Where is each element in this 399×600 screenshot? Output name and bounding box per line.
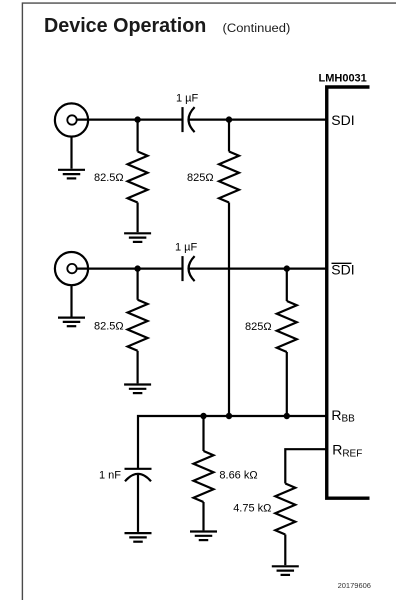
resistor R6 4.75 kohm	[275, 484, 295, 535]
wire R1 to ground	[137, 203, 139, 233]
wire R4 to RBB node	[286, 352, 288, 416]
svg-text:RBB: RBB	[331, 407, 355, 425]
wire R2 to RBB node	[228, 203, 230, 417]
BNC connector J2 outer	[55, 252, 88, 285]
wire R5 to ground	[202, 502, 204, 530]
svg-text:1 nF: 1 nF	[99, 470, 121, 482]
wire node to R2	[228, 120, 230, 152]
junction dot RBB/R2	[226, 413, 232, 419]
wire J1 shield to ground	[70, 137, 72, 169]
wire R3 to ground	[137, 351, 139, 384]
wire R6 to ground	[284, 535, 286, 566]
wire node to R3	[137, 269, 139, 300]
wire RREF pin to R6	[285, 449, 326, 483]
ground R6	[272, 566, 299, 575]
wire RBB rail	[138, 416, 326, 469]
junction dot RBB/R5	[200, 413, 206, 419]
BNC connector J2 inner	[67, 264, 76, 273]
resistor R1 82.5 ohm	[128, 152, 148, 203]
svg-text:(Continued): (Continued)	[223, 21, 291, 35]
wire J2 to C2 (row 2)	[77, 268, 183, 270]
wire C2 to SDI-bar pin	[189, 268, 326, 270]
resistor R5 8.66 kohm	[194, 451, 214, 502]
wire J2 shield to ground	[70, 285, 72, 316]
ground J2	[58, 318, 85, 327]
capacitor C2 1uF	[183, 256, 195, 281]
pin SDI-bar overline	[332, 262, 352, 264]
svg-text:SDI: SDI	[331, 112, 354, 128]
junction dot RBB/R4	[284, 413, 290, 419]
junction dot node row1/R1	[134, 116, 140, 122]
svg-text:LMH0031: LMH0031	[319, 72, 367, 84]
BNC connector J1 inner	[67, 115, 76, 124]
resistor R4 825 ohm	[277, 301, 297, 352]
svg-text:82.5Ω: 82.5Ω	[94, 172, 124, 184]
ground R5	[190, 532, 217, 541]
wire RBB node to R5	[202, 416, 204, 451]
ground R3	[124, 385, 151, 394]
BNC connector J1 outer	[55, 103, 88, 136]
svg-text:4.75 kΩ: 4.75 kΩ	[233, 503, 271, 515]
capacitor C1 1uF	[183, 107, 195, 132]
ground C3	[125, 533, 152, 542]
junction dot node row1/R2	[226, 116, 232, 122]
ground R1	[124, 233, 151, 242]
wire node to R1	[137, 120, 139, 152]
ground J1	[58, 170, 85, 179]
wire C1 to SDI pin	[189, 118, 326, 120]
svg-text:Device Operation: Device Operation	[44, 15, 206, 37]
capacitor C3 1nF	[125, 469, 152, 482]
svg-text:1 µF: 1 µF	[175, 242, 198, 254]
svg-text:8.66 kΩ: 8.66 kΩ	[219, 470, 257, 482]
resistor R3 82.5 ohm	[128, 300, 148, 351]
resistor R2 825 ohm	[219, 152, 239, 203]
wire node to R4	[286, 269, 288, 301]
svg-text:825Ω: 825Ω	[187, 172, 214, 184]
svg-text:825Ω: 825Ω	[245, 321, 272, 333]
svg-text:SDI: SDI	[331, 262, 354, 278]
wire C3 to ground	[137, 474, 139, 532]
IC U1 body (LMH0031)	[327, 87, 370, 498]
svg-text:1 µF: 1 µF	[176, 93, 199, 105]
junction dot node row2/R4	[284, 265, 290, 271]
svg-text:RREF: RREF	[332, 442, 362, 460]
junction dot node row2/R3	[134, 265, 140, 271]
svg-text:82.5Ω: 82.5Ω	[94, 321, 124, 333]
svg-text:20179606: 20179606	[338, 581, 371, 590]
wire J1 to C1 (row 1)	[77, 118, 183, 120]
